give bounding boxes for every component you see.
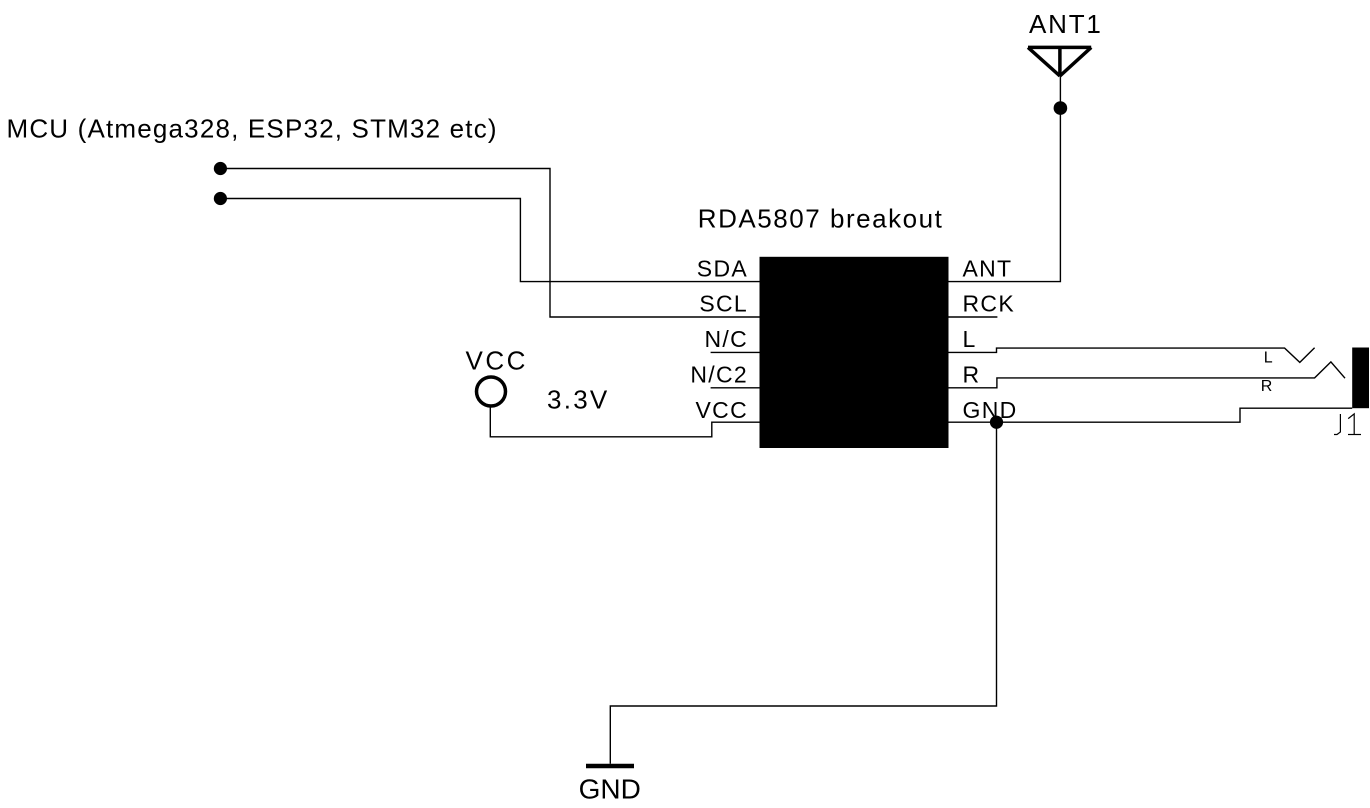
svg-text:L: L <box>1264 350 1273 367</box>
wire VCC (power symbol to U1 VCC) <box>490 406 759 437</box>
wire GND down to ground symbol <box>610 422 996 764</box>
svg-text:ANT1: ANT1 <box>1029 9 1103 39</box>
node antenna junction <box>1054 101 1068 115</box>
wire SDA (MCU to U1 SDA) <box>220 199 759 282</box>
ground symbol bar <box>586 764 634 769</box>
svg-text:R: R <box>1261 378 1273 395</box>
svg-text:GND: GND <box>963 397 1018 423</box>
svg-text:GND: GND <box>579 773 641 804</box>
pin stub N/C2 <box>711 387 760 389</box>
svg-text:VCC: VCC <box>466 346 528 376</box>
wire L (U1 L to jack tip) <box>949 348 1315 363</box>
power symbol VCC circle <box>477 377 506 406</box>
svg-text:R: R <box>963 362 981 388</box>
svg-text:RCK: RCK <box>963 291 1015 317</box>
node MCU SCL terminal <box>214 162 227 175</box>
svg-text:VCC: VCC <box>696 397 748 423</box>
wire GND to jack sleeve <box>997 408 1353 422</box>
svg-text:ANT: ANT <box>963 255 1013 281</box>
svg-text:L: L <box>963 326 977 352</box>
wire R (U1 R to jack ring) <box>949 362 1346 388</box>
svg-text:N/C2: N/C2 <box>690 362 748 388</box>
node MCU SDA terminal <box>214 192 227 205</box>
pin stub N/C <box>711 351 760 353</box>
svg-text:SDA: SDA <box>697 255 748 281</box>
svg-text:3.3V: 3.3V <box>547 384 610 414</box>
label J1 <box>1334 414 1361 435</box>
antenna ANT1 symbol <box>1028 47 1091 76</box>
wire GND stub from U1 <box>949 421 997 423</box>
connector J1 body <box>1352 348 1369 409</box>
pin stub RCK <box>949 316 998 318</box>
svg-text:SCL: SCL <box>699 291 748 317</box>
svg-text:RDA5807 breakout: RDA5807 breakout <box>698 203 944 233</box>
svg-text:MCU (Atmega328, ESP32, STM32 e: MCU (Atmega328, ESP32, STM32 etc) <box>7 113 498 143</box>
wire ANT (U1 ANT to antenna) <box>949 76 1061 282</box>
node GND junction <box>990 416 1003 429</box>
wire SCL (MCU to U1 SCL) <box>220 169 759 318</box>
IC U1 RDA5807 breakout body <box>760 257 949 448</box>
svg-text:N/C: N/C <box>704 326 748 352</box>
